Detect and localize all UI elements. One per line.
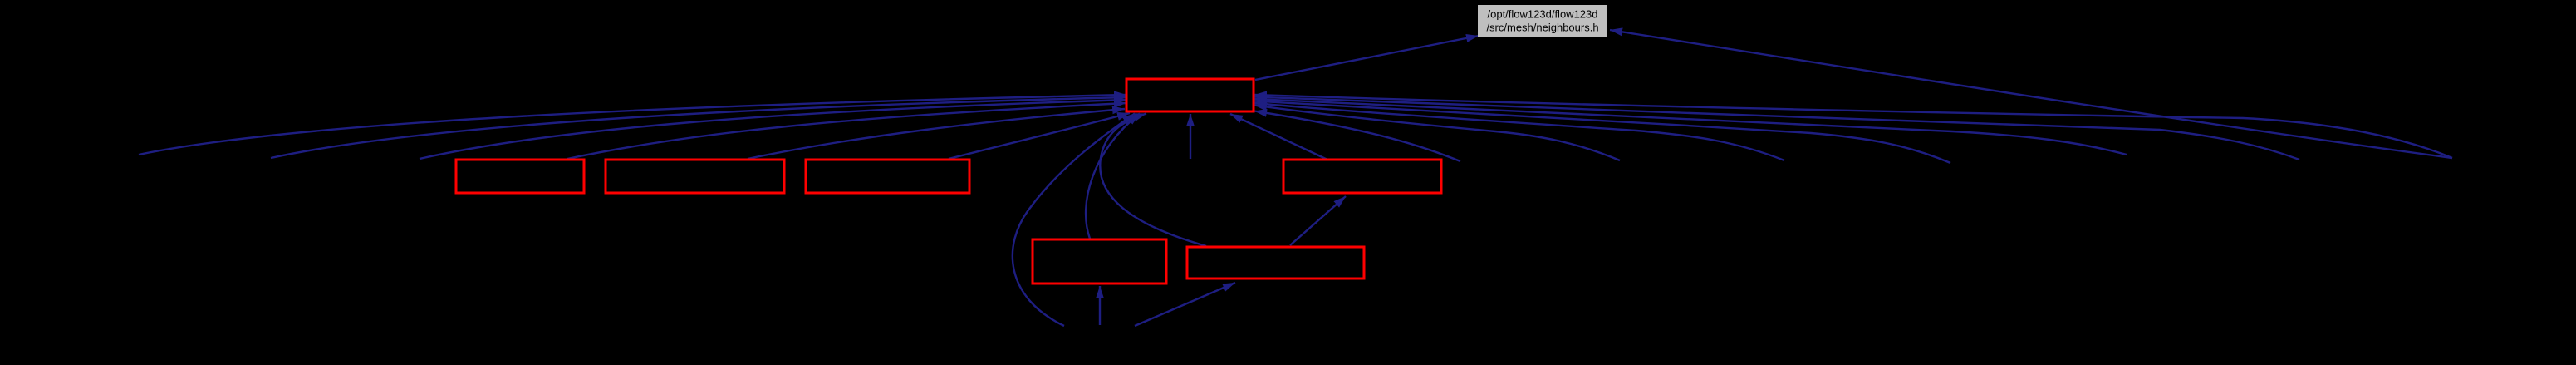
edge R4 -> mesh.h [1254,101,1950,164]
svg-text:/opt/flow123d/flow123d: /opt/flow123d/flow123d [1488,8,1598,21]
edge R6 -> mesh.h [1254,97,2299,160]
svg-text:/src/mesh/neighbours.h: /src/mesh/neighbours.h [1486,22,1598,34]
edge R3 -> mesh.h [1254,103,1784,160]
node F (red box, row 2) [1187,247,1364,279]
edge: node D -> mesh.h [1230,114,1327,160]
node mesh.h (central red box) [1126,79,1254,111]
edge: node E -> mesh.h [1086,114,1140,239]
edge L5: node B -> mesh.h [748,109,1125,159]
edge: bottom node -> node E (vertical) [1099,286,1101,325]
edge: node F -> node D [1290,196,1346,245]
edge L4: node A -> mesh.h [567,103,1126,159]
node C (red box, row 1) [806,160,969,193]
root node /opt/flow123d/flow123d/src/mesh/neighbours.h (gray box) [1478,5,1607,37]
node D (red box, row 1) [1283,160,1441,193]
edge R7: far-right node -> mesh.h [1254,95,2452,158]
edge L3 -> mesh.h [420,100,1126,159]
edge: bottom node -> mesh.h (wraps around node E) [1013,114,1135,327]
node E (red box, row 2, two-line) [1033,239,1166,284]
edge R1 -> mesh.h [1254,111,1460,162]
edge R2 -> mesh.h [1254,106,1620,161]
edge: bottom node -> node F [1135,283,1235,326]
edge: mesh.h -> neighbours.h (gray root) [1255,36,1479,80]
edge L6: node C -> mesh.h [949,113,1130,159]
edge L1: far-left node -> mesh.h [139,95,1126,155]
node B (red box, row 1) [606,160,784,193]
edge: far-right node -> neighbours.h (gray root) [1610,30,2452,158]
edge: node below mesh.h, vertical -> mesh.h [1190,114,1191,159]
edge R5 -> mesh.h [1254,99,2127,155]
edge L2 -> mesh.h [271,97,1126,158]
node A (red box, row 1) [456,160,584,193]
edge: node F -> mesh.h [1100,114,1206,247]
